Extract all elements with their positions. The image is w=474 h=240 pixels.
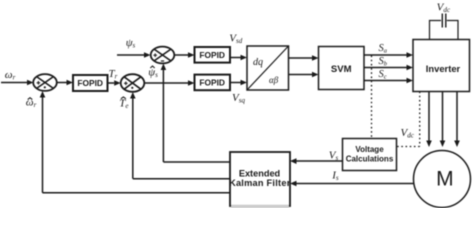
- svg-text:αβ: αβ: [269, 75, 279, 85]
- label V_dc top: [437, 1, 451, 14]
- wire S_a: [364, 52, 413, 58]
- wire V_s Voltage Calculations to EKF: [290, 158, 343, 164]
- wire V_sq FOPID3 to dq: [230, 80, 247, 86]
- wire DC link right: [447, 21, 458, 40]
- wire dq to SVM upper: [289, 55, 319, 61]
- wire psi_s input: [117, 52, 151, 58]
- block Extended Kalman Filter: [229, 152, 291, 206]
- motor M: [414, 151, 471, 208]
- summing junction SJ1: [33, 74, 57, 91]
- wire S_b: [364, 65, 413, 71]
- block Voltage Calculations: [343, 139, 397, 171]
- svg-text:FOPID: FOPID: [199, 78, 225, 88]
- label T_r: [109, 68, 118, 81]
- svg-text:Kalman Filter: Kalman Filter: [229, 178, 291, 188]
- label V_sd: [229, 33, 242, 46]
- label V_s: [329, 149, 339, 162]
- block FOPID U2: [195, 47, 231, 63]
- capacitor Vdc plates: [442, 14, 446, 28]
- wire psi_s_hat feedback vertical: [161, 64, 167, 163]
- block FOPID U1: [73, 75, 108, 91]
- svg-text:SVM: SVM: [331, 64, 352, 75]
- block Inverter: [413, 40, 470, 92]
- svg-text:M: M: [436, 167, 454, 190]
- wire DC link left: [430, 21, 442, 40]
- wire V_dc dotted from inverter: [397, 92, 420, 147]
- summing junction SJ2: [121, 74, 145, 92]
- wire T_e_hat EKF horizontal: [133, 178, 230, 180]
- label I_s: [331, 170, 339, 183]
- wire psi_s_hat EKF to junction: [163, 161, 230, 163]
- wire phase C inverter to motor: [454, 92, 460, 148]
- wire FOPID1 to SJ2: [108, 80, 121, 86]
- wire SJ3 to FOPID2: [174, 52, 194, 58]
- label S_a: [379, 43, 388, 55]
- wire S_abc dotted to Voltage Calculations: [371, 56, 373, 139]
- block SVM: [319, 47, 365, 90]
- wire I_s motor to EKF: [290, 181, 414, 187]
- block dq-alphabeta transform: [247, 46, 289, 90]
- svg-text:Inverter: Inverter: [426, 63, 461, 74]
- svg-text:Voltage: Voltage: [355, 145, 384, 154]
- label T_e_hat: [119, 97, 128, 110]
- label V_sq: [232, 92, 245, 105]
- svg-text:FOPID: FOPID: [199, 50, 225, 60]
- label omega_ref: [5, 69, 16, 82]
- svg-text:Extended: Extended: [239, 169, 280, 179]
- svg-text:Calculations: Calculations: [346, 155, 394, 164]
- wire SJ1 to FOPID1: [57, 80, 73, 86]
- label S_c: [379, 69, 387, 81]
- wire phase A inverter to motor: [426, 92, 432, 148]
- wire omega_r_hat feedback vertical: [40, 91, 46, 193]
- wire omega_r_hat EKF horizontal: [43, 192, 231, 194]
- label omega_r_hat: [26, 96, 37, 109]
- wire T_e_hat feedback vertical: [130, 92, 136, 179]
- label psi_s: [126, 37, 136, 50]
- wire S_c: [364, 78, 413, 84]
- svg-text:FOPID: FOPID: [77, 78, 103, 88]
- label S_b: [379, 56, 388, 68]
- label psi_s_hat: [148, 66, 158, 79]
- wire SJ2 to FOPID3: [144, 80, 194, 86]
- wire omega_ref input: [1, 80, 34, 86]
- svg-text:dq: dq: [253, 57, 263, 68]
- summing junction SJ3: [151, 47, 175, 64]
- wire V_sd FOPID2 to dq: [230, 55, 247, 61]
- block FOPID U3: [195, 75, 231, 91]
- wire dq to SVM lower: [289, 72, 319, 78]
- wire phase B inverter to motor: [440, 92, 446, 148]
- label V_dc lower: [401, 127, 415, 140]
